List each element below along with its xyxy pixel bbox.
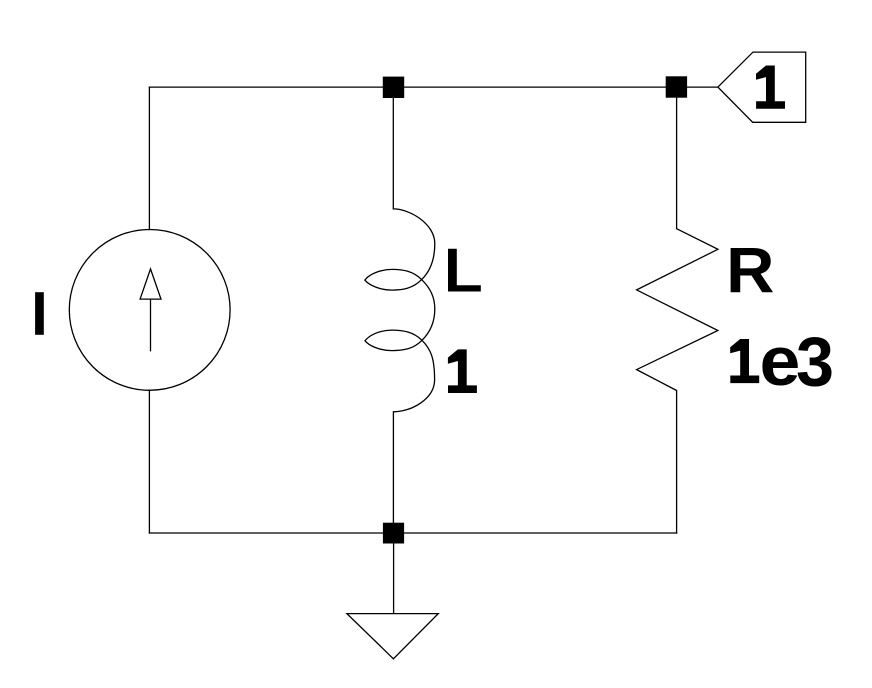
value 1e3 of R : letter e [760,323,801,401]
current source I1 circle [69,230,230,391]
label I [35,292,44,335]
value 1 of L [448,349,477,393]
resistor R zigzag [637,229,718,391]
svg-text:R: R [726,235,774,306]
ground [347,544,438,659]
current source I1 arrow [140,269,161,352]
svg-text:3: 3 [796,323,834,401]
node label 1 flag [718,52,806,122]
value 1e3 of R : digit 3 [796,323,834,401]
junction node bottom [383,523,404,544]
wire right vertical upper [676,87,678,229]
inductor L coil [365,209,435,412]
junction node top-right [666,76,687,97]
label R [726,235,774,306]
wire top horizontal [149,86,718,88]
junction node top-middle [383,77,404,98]
wire left vertical upper [148,87,150,230]
label L [448,249,481,292]
node label 1 digit [756,66,785,109]
wire right vertical lower [676,391,678,534]
wire middle vertical lower [392,412,394,533]
value 1e3 of R : digit 1 [730,339,759,383]
svg-text:e: e [760,323,801,401]
wire bottom horizontal [149,532,676,534]
wire middle vertical upper [392,87,394,209]
wire left vertical lower [148,390,150,533]
